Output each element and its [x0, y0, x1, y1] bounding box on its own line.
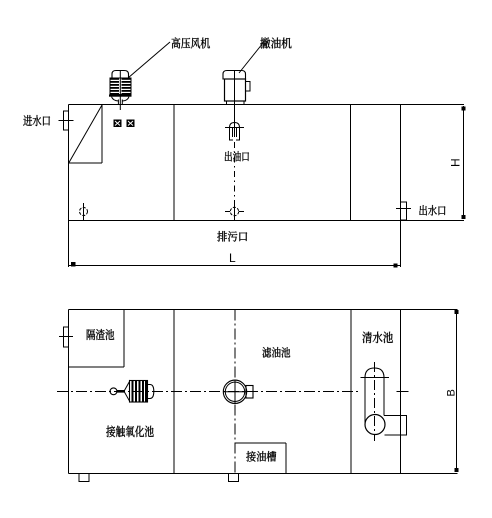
dimension B — [456, 311, 458, 472]
dimension H — [463, 106, 465, 219]
svg-text:L: L — [229, 251, 236, 265]
label 进水口 — [23, 115, 50, 126]
center pipe double circle — [223, 380, 253, 404]
leader line to skimmer — [239, 43, 263, 73]
oil outlet nozzle 出油口 symbol — [225, 123, 244, 141]
oil skimmer 撇油机 icon — [223, 71, 250, 108]
centerline (top view, vertical) — [234, 107, 236, 137]
接油槽 box — [235, 443, 287, 474]
blower 高压风机 icon — [112, 71, 129, 111]
aeration nozzle boxes — [114, 120, 135, 128]
clean-water pump pipe capsule — [361, 362, 407, 441]
隔渣池 compartment box — [69, 310, 125, 368]
label 出水口 — [419, 205, 445, 216]
inlet pipe flange 进水口 — [59, 111, 74, 130]
label 清水池 — [362, 332, 393, 343]
water outlet pipe 出水口 — [396, 202, 411, 267]
svg-text:H: H — [449, 158, 463, 167]
label 接触氧化池 — [106, 426, 153, 438]
drain fitting circle (bottom center) — [225, 207, 244, 215]
label 高压风机 — [172, 37, 210, 48]
inlet flange (plan) — [59, 327, 73, 347]
divider wall 2 (top view) — [350, 105, 352, 221]
divider wall 2 (plan) — [350, 310, 352, 474]
left fitting circle — [80, 203, 88, 221]
top view tank outline — [69, 105, 465, 221]
aerator icon (plan) — [110, 381, 154, 403]
dimension L — [69, 221, 401, 268]
feet — [79, 474, 239, 482]
label 撇油机 — [260, 38, 291, 49]
label 排污口 — [217, 231, 247, 242]
divider wall 1 (top view) — [173, 105, 175, 221]
label 滤油池 — [262, 347, 290, 358]
divider wall 1 (plan) — [173, 310, 175, 474]
label 出油口 — [225, 151, 249, 162]
vertical centerline (plan) — [234, 310, 236, 474]
inclined screen plate — [69, 105, 103, 164]
label 接油槽 — [246, 451, 276, 462]
label 隔渣池 — [87, 329, 114, 340]
horizontal centerline (plan) — [57, 390, 361, 392]
leader line to blower — [128, 42, 170, 78]
svg-text:B: B — [446, 389, 458, 396]
plan view tank outline — [69, 310, 458, 474]
